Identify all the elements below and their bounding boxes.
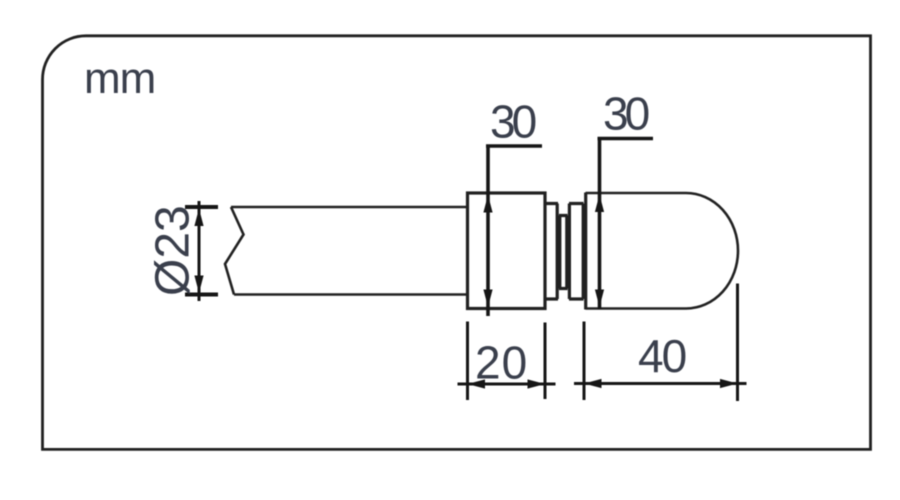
svg-text:30: 30 — [603, 88, 649, 140]
dim 30 collar up arrow — [483, 195, 492, 213]
dim 40 left arrow — [584, 379, 602, 388]
dim 20 line — [458, 383, 556, 386]
dim 40 line — [574, 382, 747, 385]
dim 30 tip leader — [598, 139, 654, 310]
dim d23 up arrow — [194, 209, 203, 227]
dim 30 collar leader — [486, 146, 542, 316]
shaft bottom line — [234, 293, 467, 296]
svg-text:20: 20 — [475, 337, 528, 389]
svg-text:mm: mm — [84, 54, 155, 103]
shaft break zigzag — [225, 207, 244, 295]
dim 40 right extension line — [736, 284, 739, 402]
dim 20 right arrow — [528, 379, 546, 388]
dim 20 left arrow — [468, 379, 486, 388]
groove — [559, 216, 568, 289]
dim 40 right arrow — [720, 379, 738, 388]
ring B — [569, 204, 584, 300]
shaft top line — [231, 206, 467, 209]
dim 20 left extension line — [466, 322, 469, 401]
collar body — [468, 193, 546, 309]
tip left edge — [584, 193, 587, 310]
svg-text:30: 30 — [490, 96, 536, 148]
ring A — [546, 204, 558, 300]
tip outline — [586, 193, 739, 309]
svg-text:Ø23: Ø23 — [147, 205, 200, 296]
dim d23 down arrow — [194, 276, 203, 294]
border frame — [43, 36, 871, 450]
dim d23 bottom tick — [185, 293, 218, 297]
dim 40 left extension line — [583, 322, 586, 401]
dim 20 right extension line — [544, 323, 547, 400]
svg-text:40: 40 — [638, 330, 686, 382]
dim 30 tip up arrow — [595, 195, 604, 213]
dim d23 top tick — [185, 205, 218, 209]
dim 30 collar down arrow — [483, 290, 492, 308]
dim d23 line — [198, 201, 201, 301]
dim 30 tip down arrow — [595, 290, 604, 308]
